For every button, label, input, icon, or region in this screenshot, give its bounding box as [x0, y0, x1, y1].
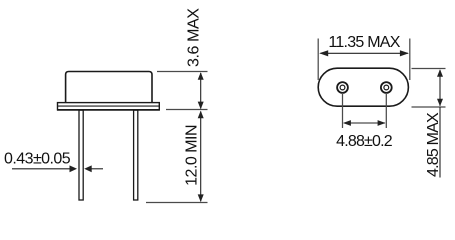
dimension line 11.35 MAX — [319, 50, 409, 56]
extension line: 11.35 left — [317, 39, 319, 81]
pin 2 outer circle — [381, 82, 392, 93]
extension line: can top — [157, 71, 208, 73]
pin 1 inner circle — [340, 85, 345, 90]
flange mid line — [58, 105, 159, 107]
extension line: pin 2 center — [385, 94, 387, 128]
leader arrow right (points left at lead) — [84, 165, 103, 172]
lead 1 (left) — [79, 110, 83, 200]
lead 2 (right) — [134, 110, 138, 200]
extension line: stadium top right — [412, 68, 446, 70]
extension line: 11.35 right — [409, 39, 411, 81]
crystal body outline (top view, stadium shape) — [318, 68, 408, 106]
extension line: stadium bottom right — [412, 106, 446, 108]
leader arrow left (points right at lead) — [12, 165, 77, 172]
svg-text:12.0 MIN: 12.0 MIN — [183, 125, 200, 186]
svg-text:0.43±0.05: 0.43±0.05 — [4, 151, 71, 168]
extension line: flange bottom — [166, 109, 208, 111]
dimension line 12.0 MIN — [198, 111, 204, 202]
svg-text:4.88±0.2: 4.88±0.2 — [336, 133, 393, 150]
crystal base flange (side view) — [58, 103, 160, 110]
extension line: lead bottom — [146, 202, 208, 204]
svg-text:3.6 MAX: 3.6 MAX — [185, 8, 202, 67]
dimension line 4.88±0.2 — [343, 120, 386, 126]
svg-text:11.35 MAX: 11.35 MAX — [328, 34, 400, 51]
pin 2 inner circle — [384, 85, 389, 90]
extension line: pin 1 center — [342, 94, 344, 128]
crystal can body (side view) — [66, 72, 152, 104]
dimension line 4.85 MAX — [437, 69, 443, 177]
dimension line 3.6 MAX — [198, 72, 204, 109]
pin 1 outer circle — [337, 82, 348, 93]
svg-text:4.85 MAX: 4.85 MAX — [425, 112, 442, 177]
